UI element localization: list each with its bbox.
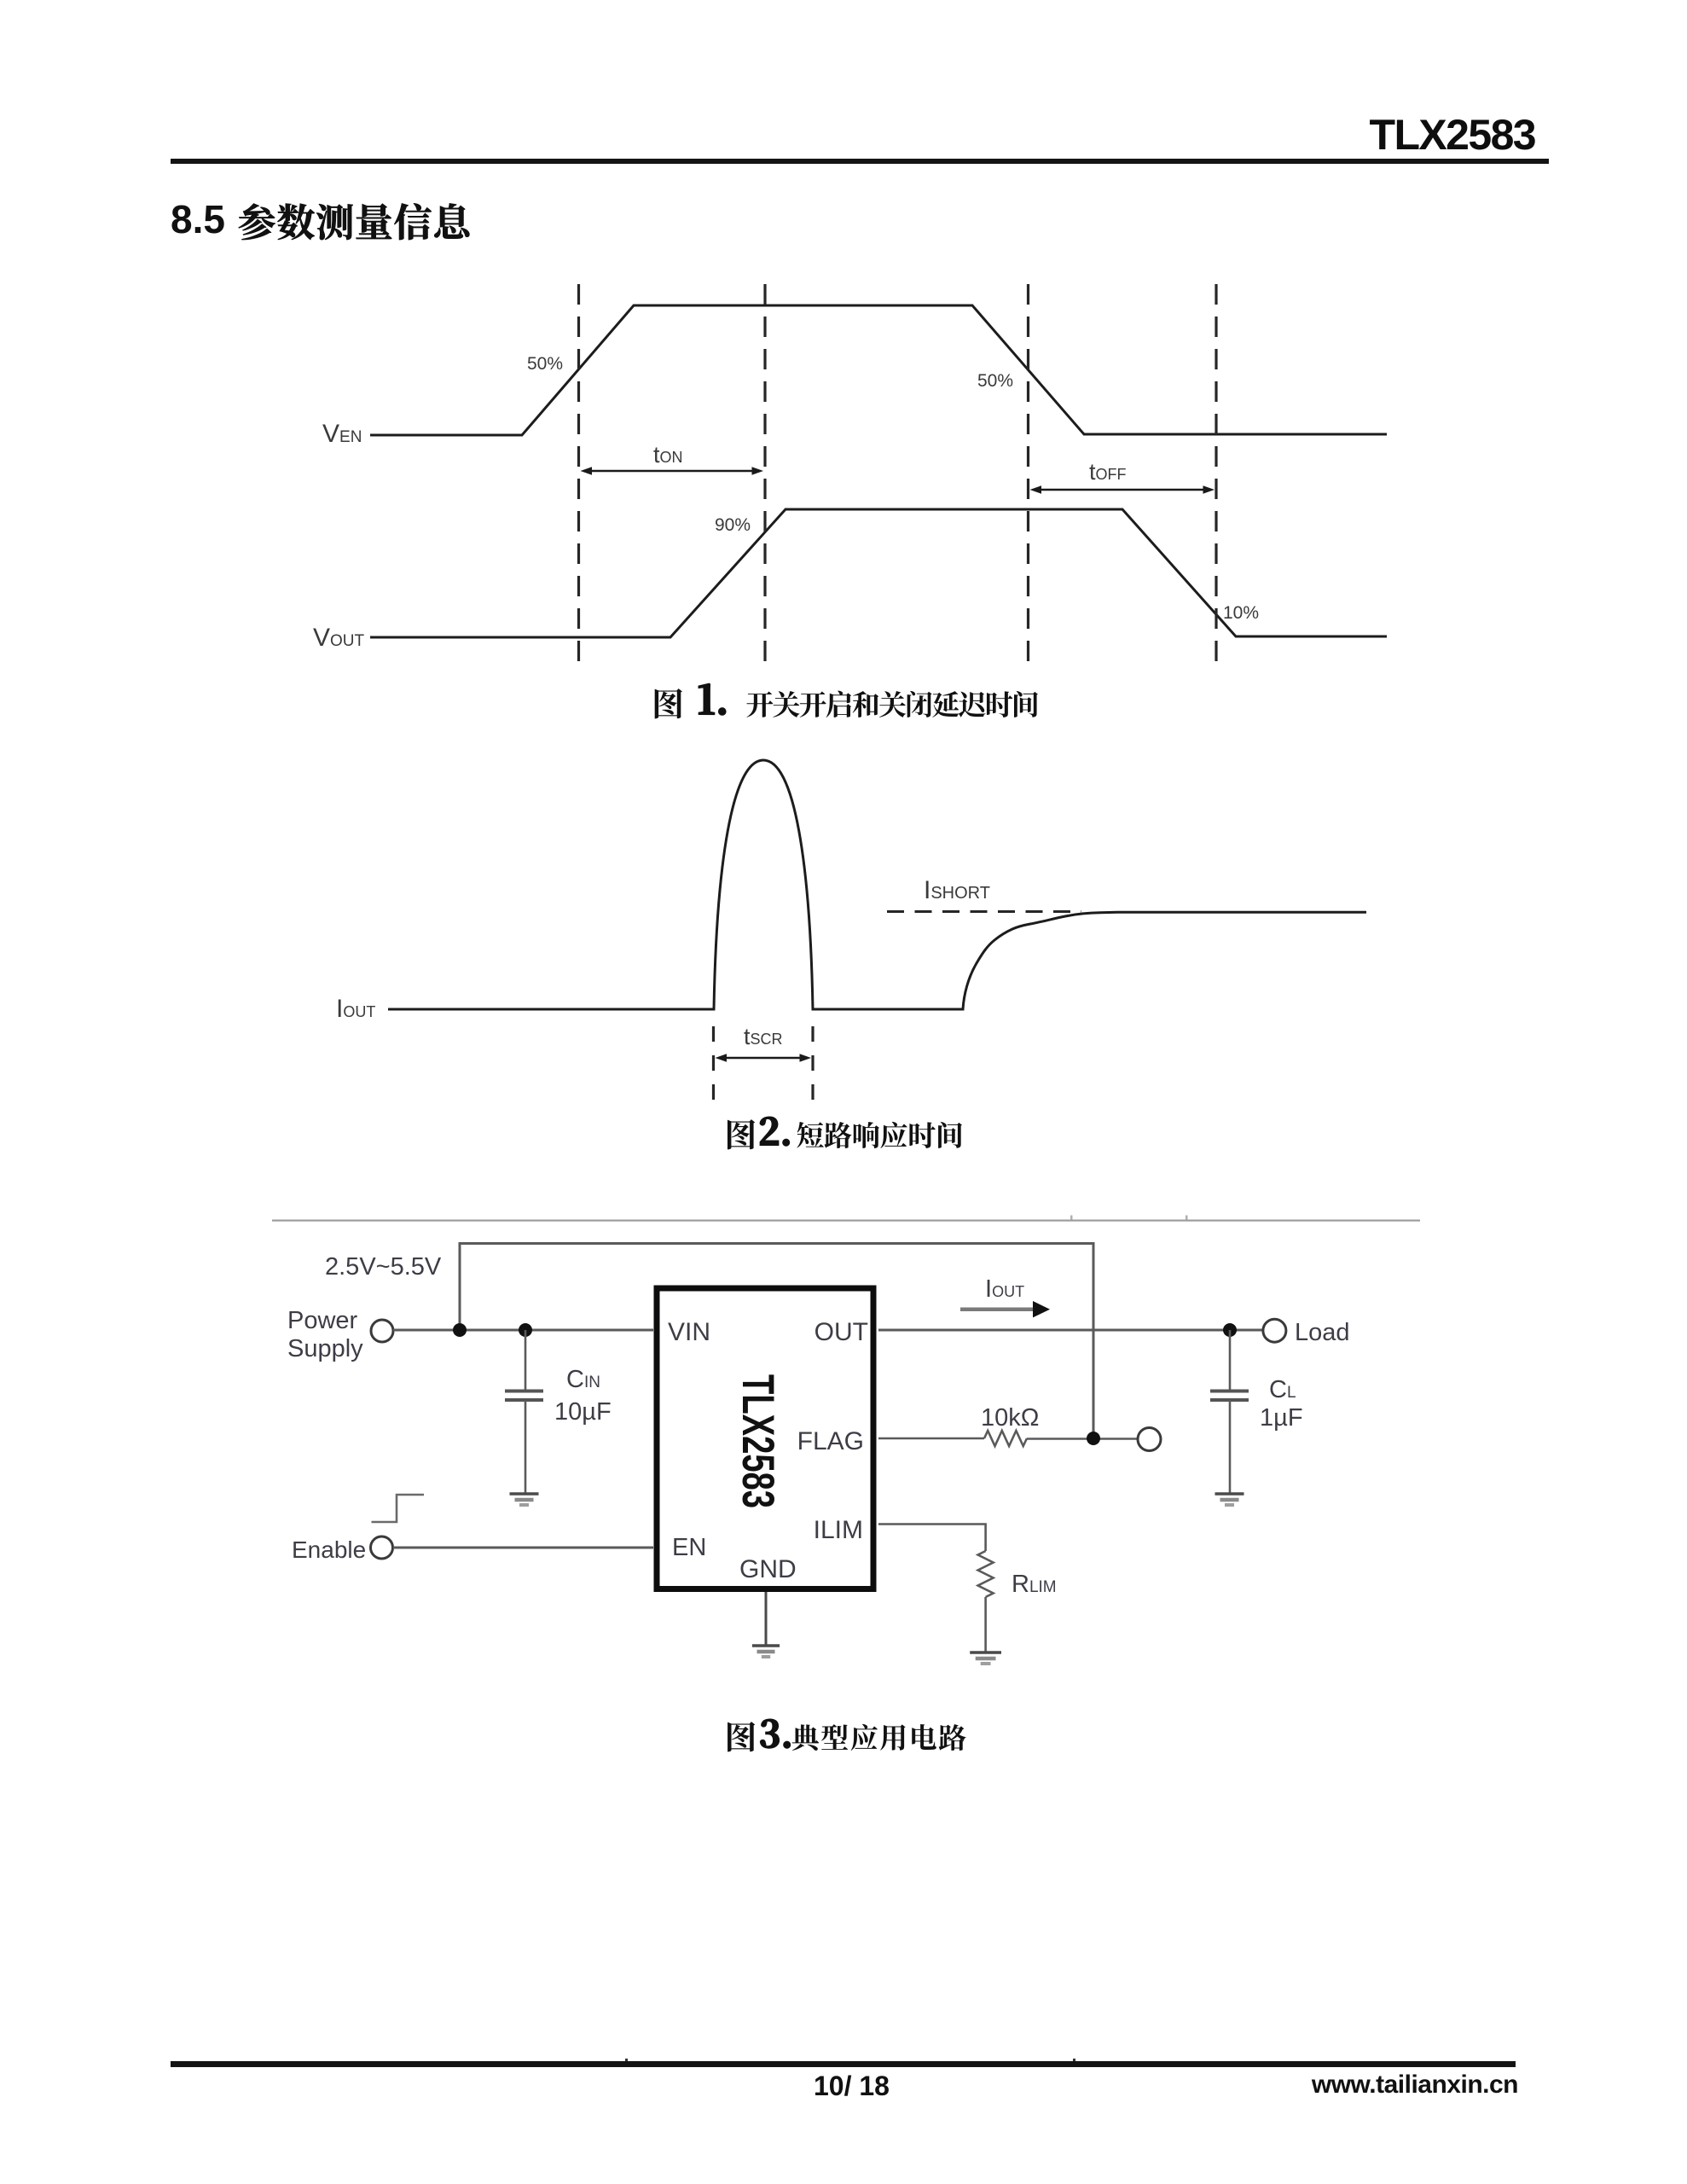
svg-text:tOFF: tOFF xyxy=(1089,459,1127,485)
svg-text:50%: 50% xyxy=(977,371,1013,391)
svg-text:Supply: Supply xyxy=(287,1335,363,1362)
figure 1: V_EN waveform xyxy=(370,305,1387,435)
svg-text:tSCR: tSCR xyxy=(744,1024,783,1049)
terminal: Enable input circle xyxy=(371,1536,393,1559)
resistor RLIM zigzag xyxy=(978,1551,994,1597)
svg-text:OUT: OUT xyxy=(815,1318,868,1346)
junction node C (CL tap) xyxy=(1223,1323,1237,1337)
svg-text:10%: 10% xyxy=(1223,603,1259,623)
svg-text:RLIM: RLIM xyxy=(1012,1571,1057,1598)
resistor R1 10k zigzag xyxy=(984,1431,1027,1446)
IC U1 TLX2583 body xyxy=(657,1288,873,1589)
ground for GND pin xyxy=(752,1644,780,1647)
figure 1: dashed reference line 1 xyxy=(577,284,580,672)
wire: OUT pin to Load xyxy=(878,1329,1263,1332)
svg-text:TLX2583: TLX2583 xyxy=(733,1374,785,1508)
svg-text:CIN: CIN xyxy=(566,1366,600,1393)
figure 2: I_SHORT dashed level line xyxy=(887,910,1081,913)
svg-text:Power: Power xyxy=(287,1307,358,1334)
footer website xyxy=(1194,2072,1518,2098)
svg-text:CL: CL xyxy=(1269,1376,1296,1403)
wire: GND pin to ground xyxy=(765,1592,768,1646)
figure 1 caption: 图 1. 开关开启和关闭延迟时间 xyxy=(655,688,682,718)
svg-text:2.5V~5.5V: 2.5V~5.5V xyxy=(325,1253,442,1281)
section heading chinese 参数测量信息 xyxy=(239,203,470,240)
enable step waveform symbol xyxy=(372,1495,425,1522)
IOUT current arrow xyxy=(960,1307,1035,1311)
footer rule tick marks xyxy=(625,2059,628,2062)
capacitor CIN xyxy=(525,1330,527,1391)
svg-text:Enable: Enable xyxy=(292,1536,366,1563)
footer rule xyxy=(171,2061,1516,2067)
figure 3: top separator hairline xyxy=(272,1220,1420,1222)
header rule xyxy=(171,159,1549,164)
figure 1: dashed reference line 3 xyxy=(1027,284,1029,672)
svg-text:VIN: VIN xyxy=(668,1318,710,1346)
svg-text:10kΩ: 10kΩ xyxy=(981,1404,1039,1432)
wire: RLIM to ground xyxy=(984,1597,987,1653)
figure 2 caption: 图 2. 短路响应时间 xyxy=(728,1119,755,1149)
svg-text:VOUT: VOUT xyxy=(313,624,365,652)
svg-text:50%: 50% xyxy=(527,354,563,374)
svg-text:VEN: VEN xyxy=(322,420,362,448)
svg-text:90%: 90% xyxy=(715,515,751,535)
svg-text:ILIM: ILIM xyxy=(814,1516,863,1544)
wire: Enable to EN pin xyxy=(393,1547,653,1549)
wire: resistor to FLAG node xyxy=(1027,1438,1138,1440)
junction node D (FLAG pull-up) xyxy=(1087,1432,1100,1445)
ground for CIN xyxy=(510,1492,539,1496)
terminal: Load circle xyxy=(1263,1319,1286,1342)
wire: feedback rail from VIN node to FLAG pull-up xyxy=(460,1244,1093,1439)
junction node B (CIN tap) xyxy=(519,1323,532,1337)
svg-text:Load: Load xyxy=(1295,1319,1350,1346)
figure 2: tSCR dashed line left xyxy=(712,1026,715,1109)
figure 3 caption: 图 3.典型应用电路 xyxy=(728,1722,755,1751)
section heading 8.5 xyxy=(171,200,225,239)
terminal: Power Supply input circle xyxy=(371,1320,393,1342)
figure 1: tOFF dimension arrow xyxy=(1040,489,1205,491)
wire: power supply to VIN pin xyxy=(393,1329,653,1332)
svg-text:tON: tON xyxy=(653,442,683,468)
figure 1: dashed reference line 4 xyxy=(1215,284,1217,672)
figure 2: tSCR dashed line right xyxy=(811,1026,814,1109)
figure 2: I_OUT waveform with short-circuit pulse xyxy=(388,760,1366,1009)
svg-text:GND: GND xyxy=(739,1555,797,1583)
figure 1: tON dimension arrow xyxy=(590,470,754,472)
ground for RLIM xyxy=(970,1651,1001,1654)
svg-text:ISHORT: ISHORT xyxy=(924,876,990,904)
capacitor CL xyxy=(1229,1330,1232,1391)
figure 2: tSCR dimension arrow xyxy=(725,1057,802,1059)
svg-text:1µF: 1µF xyxy=(1260,1404,1303,1432)
figure 1: dashed reference line 2 xyxy=(763,284,766,672)
wire: ILIM pin to RLIM xyxy=(878,1525,986,1552)
svg-text:10µF: 10µF xyxy=(554,1398,612,1426)
svg-text:IOUT: IOUT xyxy=(985,1275,1024,1303)
footer page number xyxy=(814,2072,890,2100)
svg-text:IOUT: IOUT xyxy=(336,995,375,1023)
figure 1: V_OUT waveform xyxy=(370,509,1387,637)
terminal: FLAG output circle xyxy=(1138,1428,1161,1451)
header product name TLX2583 xyxy=(1365,113,1535,156)
svg-text:EN: EN xyxy=(672,1534,706,1561)
svg-text:FLAG: FLAG xyxy=(797,1427,864,1455)
wire: FLAG pin to resistor xyxy=(878,1438,984,1440)
ground for CL xyxy=(1215,1492,1244,1496)
junction node A (feedback tap) xyxy=(453,1323,467,1337)
